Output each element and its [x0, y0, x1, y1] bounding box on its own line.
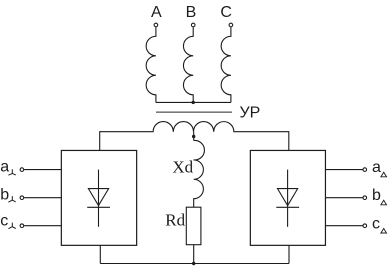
wire right drop to rectifier 2 [288, 131, 290, 150]
svg-text:Xd: Xd [172, 158, 193, 177]
wire Rd to bottom bus [193, 245, 195, 264]
smoothing inductor Xd coil [194, 140, 205, 207]
rectifier block 1 box [61, 150, 136, 245]
wire c star to rectifier 1 [24, 225, 61, 227]
svg-text:b: b [0, 186, 9, 203]
svg-text:A: A [151, 4, 162, 21]
junction dot on bus [192, 101, 195, 104]
wire rectifier 2 to b delta [325, 197, 362, 199]
delta subscript of b [381, 200, 387, 205]
svg-text:Rd: Rd [165, 211, 185, 230]
delta subscript of c [381, 229, 387, 234]
primary neutral bus wire [156, 101, 231, 103]
svg-text:c: c [0, 212, 8, 229]
equalizing reactor winding [100, 122, 289, 132]
junction dot center tap [192, 135, 195, 138]
wire a star to rectifier 1 [24, 169, 61, 171]
svg-text:c: c [372, 215, 380, 232]
delta subscript of a [381, 172, 387, 177]
wire rectifier 2 to a delta [325, 169, 362, 171]
winding A coil [146, 27, 156, 102]
winding B coil [183, 27, 193, 102]
center tap wire [193, 132, 195, 141]
wire rectifier 2 to c delta [325, 225, 362, 227]
wire b star to rectifier 1 [24, 197, 61, 199]
svg-text:a: a [372, 159, 381, 176]
junction dot bottom bus [192, 262, 195, 265]
diode VD2 [276, 170, 299, 227]
terminal c star circle [20, 224, 24, 228]
svg-text:C: C [220, 4, 232, 21]
reactor core bar [156, 111, 232, 113]
wire rectifier 1 to bottom bus [99, 245, 101, 264]
winding C coil [221, 27, 231, 102]
star subscript of a [8, 169, 15, 175]
rectifier block 2 box [250, 150, 325, 245]
terminal A [154, 23, 158, 27]
terminal B [191, 23, 195, 27]
terminal C [229, 23, 233, 27]
terminal a star circle [20, 168, 24, 172]
svg-text:b: b [372, 187, 381, 204]
terminal b delta circle [363, 196, 367, 200]
wire left drop to rectifier 1 [99, 131, 101, 150]
star subscript of c [8, 223, 15, 229]
terminal a delta circle [363, 168, 367, 172]
terminal b star circle [20, 196, 24, 200]
bottom bus wire [100, 263, 289, 265]
wire rectifier 2 to bottom bus [288, 245, 290, 264]
diode VD1 [87, 170, 110, 227]
svg-text:B: B [186, 4, 197, 21]
star subscript of b [8, 196, 15, 202]
svg-text:a: a [0, 159, 9, 176]
svg-text:УР: УР [240, 105, 261, 122]
terminal c delta circle [363, 224, 367, 228]
resistor Rd [186, 207, 201, 245]
